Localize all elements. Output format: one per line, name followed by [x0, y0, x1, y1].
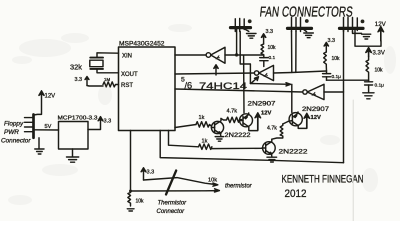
inverter U2C [175, 89, 303, 92]
wire MCU to R7 1k [175, 125, 196, 128]
svg-text:Connector: Connector [1, 138, 31, 145]
transistor Q1 2N2222 [211, 121, 223, 133]
capacitor C1 0.1 fan1 [260, 57, 268, 59]
wires J2 pins down [291, 32, 293, 73]
svg-text:10k: 10k [136, 199, 145, 205]
svg-text:4.7k: 4.7k [267, 126, 277, 132]
resistor R6 10k fan3 column [366, 57, 369, 81]
resistor R7 1k [196, 122, 211, 127]
ground at J3 [353, 32, 362, 34]
fan connector J2 [288, 27, 312, 30]
ground at J2 [304, 30, 307, 32]
wire J4 5V to U3 [34, 129, 59, 131]
capacitor C2 0.1u fan2 [323, 73, 331, 75]
wire U2C input to fan3 tach [324, 91, 344, 93]
svg-text:XOUT: XOUT [121, 72, 138, 78]
svg-text:1k: 1k [202, 139, 208, 145]
svg-text:0.1μ: 0.1μ [332, 74, 342, 80]
resistor R10 4.7k vertical [272, 124, 283, 139]
svg-text:Connector: Connector [157, 209, 186, 215]
svg-text:MSP430G2452: MSP430G2452 [119, 41, 165, 48]
junction [235, 53, 238, 56]
svg-text:32k: 32k [70, 63, 82, 72]
wire fan1 step to Q4 feed with arrowhead [250, 83, 290, 86]
12V arrow at J4 [34, 95, 42, 116]
ground at J1 [244, 29, 249, 32]
svg-text:10k: 10k [208, 178, 217, 184]
thermistor pair wires [144, 178, 217, 185]
3.3 output arrow [88, 119, 101, 129]
wire crystal top to XIN [97, 53, 119, 58]
12V arrow at Q4 [306, 118, 308, 129]
capacitor C3 0.1u fan3 [365, 81, 373, 83]
svg-text:KENNETH FINNEGAN: KENNETH FINNEGAN [282, 174, 364, 186]
svg-text:1k: 1k [199, 115, 205, 121]
svg-text:Floppy: Floppy [4, 121, 24, 128]
svg-text:3.3: 3.3 [147, 170, 155, 176]
regulator U3 MCP1700-3.3 [59, 122, 89, 150]
3.3V arrow [368, 51, 370, 57]
mcu U1 MSP430G2452 box [119, 47, 176, 131]
transistor Q3 2N2222 [263, 142, 276, 155]
resistor R8 4.7k [221, 117, 242, 122]
ground under U3 [72, 149, 74, 157]
svg-text:2N2907: 2N2907 [248, 101, 277, 108]
svg-text:12V: 12V [375, 21, 387, 28]
ground under Q3 [267, 157, 277, 162]
wire J1 pin step down [240, 32, 250, 84]
resistor R9 1k [199, 144, 212, 149]
svg-text:12V: 12V [311, 115, 321, 121]
wire cap to fan3 column [327, 79, 369, 81]
ground under C3 [363, 93, 374, 99]
ground under Q1 [215, 137, 223, 142]
wire U2A input to fan1 tach node [225, 54, 264, 56]
svg-text:XIN: XIN [122, 54, 132, 60]
12V arrow at Q2 [257, 117, 259, 130]
transistor Q2 2N2907 [240, 114, 253, 127]
12V input arrow [355, 28, 381, 46]
svg-text:12V: 12V [45, 94, 56, 100]
thermistor connector slash [166, 171, 176, 195]
svg-text:1M: 1M [104, 77, 110, 82]
svg-text:PWR: PWR [4, 129, 19, 136]
svg-text:2N2222: 2N2222 [225, 132, 252, 139]
svg-text:thermistor: thermistor [225, 184, 253, 190]
svg-text:0.1μ: 0.1μ [375, 83, 385, 89]
svg-text:5V: 5V [45, 124, 52, 130]
svg-text:0.1: 0.1 [269, 55, 276, 61]
svg-text:RST: RST [121, 83, 133, 89]
wire fan3 long vertical [343, 28, 345, 162]
wire RST pullup [87, 85, 103, 88]
transistor Q4 2N2907 [283, 121, 288, 124]
svg-text:12V: 12V [261, 111, 271, 117]
svg-text:Thermistor: Thermistor [158, 201, 188, 207]
small NE arrow annotation [251, 78, 257, 83]
ground under R11 [127, 209, 134, 211]
wire MCU bottom to thermistor divider [130, 131, 132, 192]
svg-text:3.3V: 3.3V [373, 51, 385, 57]
resistor R1 1M on RST [103, 82, 119, 87]
svg-text:3.3: 3.3 [75, 77, 83, 83]
svg-text:10k: 10k [375, 68, 384, 74]
resistor R11 10k [128, 193, 131, 207]
ground under J4 [38, 138, 40, 149]
wire MCU bottom fan3 drive [160, 131, 343, 163]
annotation arrow under U2A [215, 67, 217, 75]
svg-text:3.3: 3.3 [328, 38, 336, 44]
svg-text:3.3: 3.3 [104, 119, 112, 125]
svg-text:4.7k: 4.7k [227, 109, 238, 115]
junction [129, 190, 132, 193]
svg-text:10k: 10k [268, 45, 277, 51]
wire crystal bottom to XOUT [97, 69, 119, 73]
svg-text:3.3: 3.3 [266, 29, 274, 35]
inverter U2B [175, 73, 254, 74]
fan connector J1 [231, 26, 251, 29]
svg-text:2012: 2012 [285, 188, 307, 200]
wire R9 to Q3 [212, 147, 262, 149]
svg-text:2N2222: 2N2222 [279, 149, 309, 156]
inverter U2A [175, 54, 206, 56]
svg-text:MCP1700-3.3: MCP1700-3.3 [58, 116, 98, 122]
svg-text:10k: 10k [332, 56, 341, 62]
wire MCU bottom to R9 1k [169, 131, 199, 147]
wire J1 power pin down to Q2 [243, 55, 245, 113]
wire U2B input to fan2 tach node [274, 71, 327, 73]
svg-text:2N2907: 2N2907 [302, 106, 330, 113]
svg-text:FAN CONNECTORS: FAN CONNECTORS [259, 4, 354, 20]
wire J1 pin to tach node [236, 30, 238, 55]
fan connector J3 [340, 27, 364, 30]
